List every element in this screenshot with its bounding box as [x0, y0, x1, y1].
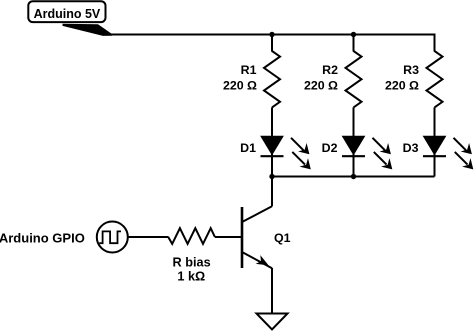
wire R3 to D3 — [434, 107, 436, 176]
net flag Arduino 5V — [28, 1, 112, 36]
svg-text:R bias: R bias — [173, 256, 211, 270]
svg-text:Q1: Q1 — [274, 231, 291, 245]
junction top rail / R1 — [269, 32, 274, 37]
LED D2 — [342, 136, 392, 169]
svg-text:Arduino 5V: Arduino 5V — [34, 7, 101, 21]
source V1 square wave — [97, 222, 128, 253]
svg-text:R3: R3 — [403, 63, 419, 77]
wire 5V rail to R1 — [271, 35, 273, 52]
svg-text:R2: R2 — [322, 63, 338, 77]
wire emitter to ground — [271, 268, 273, 314]
svg-text:Arduino GPIO: Arduino GPIO — [0, 230, 85, 245]
wire cathode rail to collector — [271, 177, 273, 207]
resistor R2 — [346, 51, 362, 107]
wire top 5V rail — [111, 34, 435, 36]
resistor R bias — [168, 228, 215, 244]
LED D3 — [423, 136, 473, 169]
svg-text:220 Ω: 220 Ω — [223, 79, 257, 93]
wire R bias to base — [215, 236, 242, 238]
svg-text:220 Ω: 220 Ω — [385, 79, 419, 93]
transistor Q1 — [242, 206, 272, 268]
wire 5V rail corner to R3 — [434, 34, 436, 52]
svg-text:D2: D2 — [322, 141, 338, 155]
LED D1 — [261, 136, 311, 169]
svg-text:220 Ω: 220 Ω — [304, 79, 338, 93]
ground — [257, 314, 288, 330]
resistor R3 — [427, 51, 443, 107]
svg-text:D1: D1 — [240, 141, 256, 155]
wire R1 to D1 — [271, 107, 273, 176]
wire R2 to D2 — [353, 107, 355, 176]
wire LED cathode rail — [272, 176, 435, 178]
junction cathode rail / D2 — [351, 174, 356, 179]
wire 5V rail to R2 — [353, 35, 355, 52]
junction cathode rail / D1 collector — [269, 174, 274, 179]
svg-text:D3: D3 — [403, 141, 419, 155]
svg-text:1 kΩ: 1 kΩ — [177, 269, 205, 283]
resistor R1 — [264, 51, 280, 107]
svg-text:R1: R1 — [241, 63, 257, 77]
wire source to R bias — [128, 236, 169, 238]
junction top rail / R2 — [351, 32, 356, 37]
